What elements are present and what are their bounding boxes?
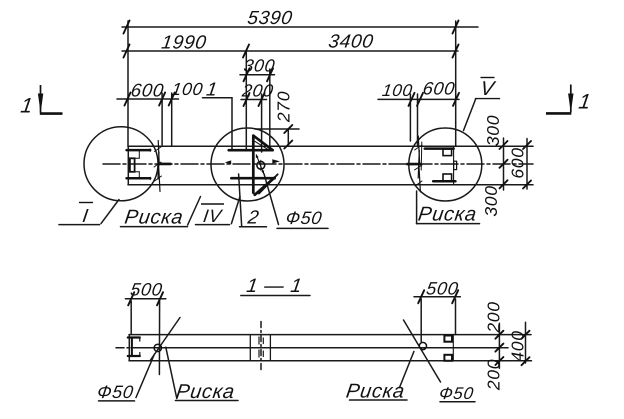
svg-text:300: 300: [483, 115, 503, 146]
svg-text:3400: 3400: [327, 32, 375, 53]
svg-text:300: 300: [481, 185, 501, 216]
svg-text:100: 100: [381, 81, 414, 100]
svg-text:600: 600: [508, 147, 528, 178]
svg-text:Риска: Риска: [175, 381, 237, 403]
svg-text:5390: 5390: [246, 8, 294, 29]
svg-text:300: 300: [242, 56, 276, 76]
svg-text:200: 200: [484, 301, 504, 333]
svg-text:1990: 1990: [160, 33, 208, 54]
svg-text:Ф50: Ф50: [284, 208, 323, 228]
svg-text:1: 1: [577, 91, 593, 114]
svg-text:200: 200: [484, 359, 504, 391]
svg-text:500: 500: [129, 280, 164, 300]
svg-text:Ф50: Ф50: [438, 384, 475, 403]
svg-text:Риска: Риска: [345, 381, 407, 403]
svg-text:600: 600: [422, 79, 457, 99]
svg-text:Риска: Риска: [123, 207, 185, 229]
svg-text:270: 270: [274, 91, 294, 123]
svg-text:1: 1: [19, 95, 35, 118]
svg-text:I: I: [81, 206, 90, 227]
svg-text:600: 600: [130, 80, 166, 101]
svg-text:500: 500: [425, 279, 460, 299]
svg-text:Ф50: Ф50: [96, 382, 135, 402]
svg-text:400: 400: [508, 330, 528, 361]
svg-text:2: 2: [245, 208, 260, 229]
svg-text:1 — 1: 1 — 1: [245, 275, 304, 297]
svg-text:200: 200: [240, 81, 275, 101]
svg-text:Риска: Риска: [417, 204, 479, 226]
svg-text:IV: IV: [202, 206, 224, 226]
svg-text:V: V: [479, 78, 497, 100]
svg-text:100: 100: [170, 79, 204, 99]
